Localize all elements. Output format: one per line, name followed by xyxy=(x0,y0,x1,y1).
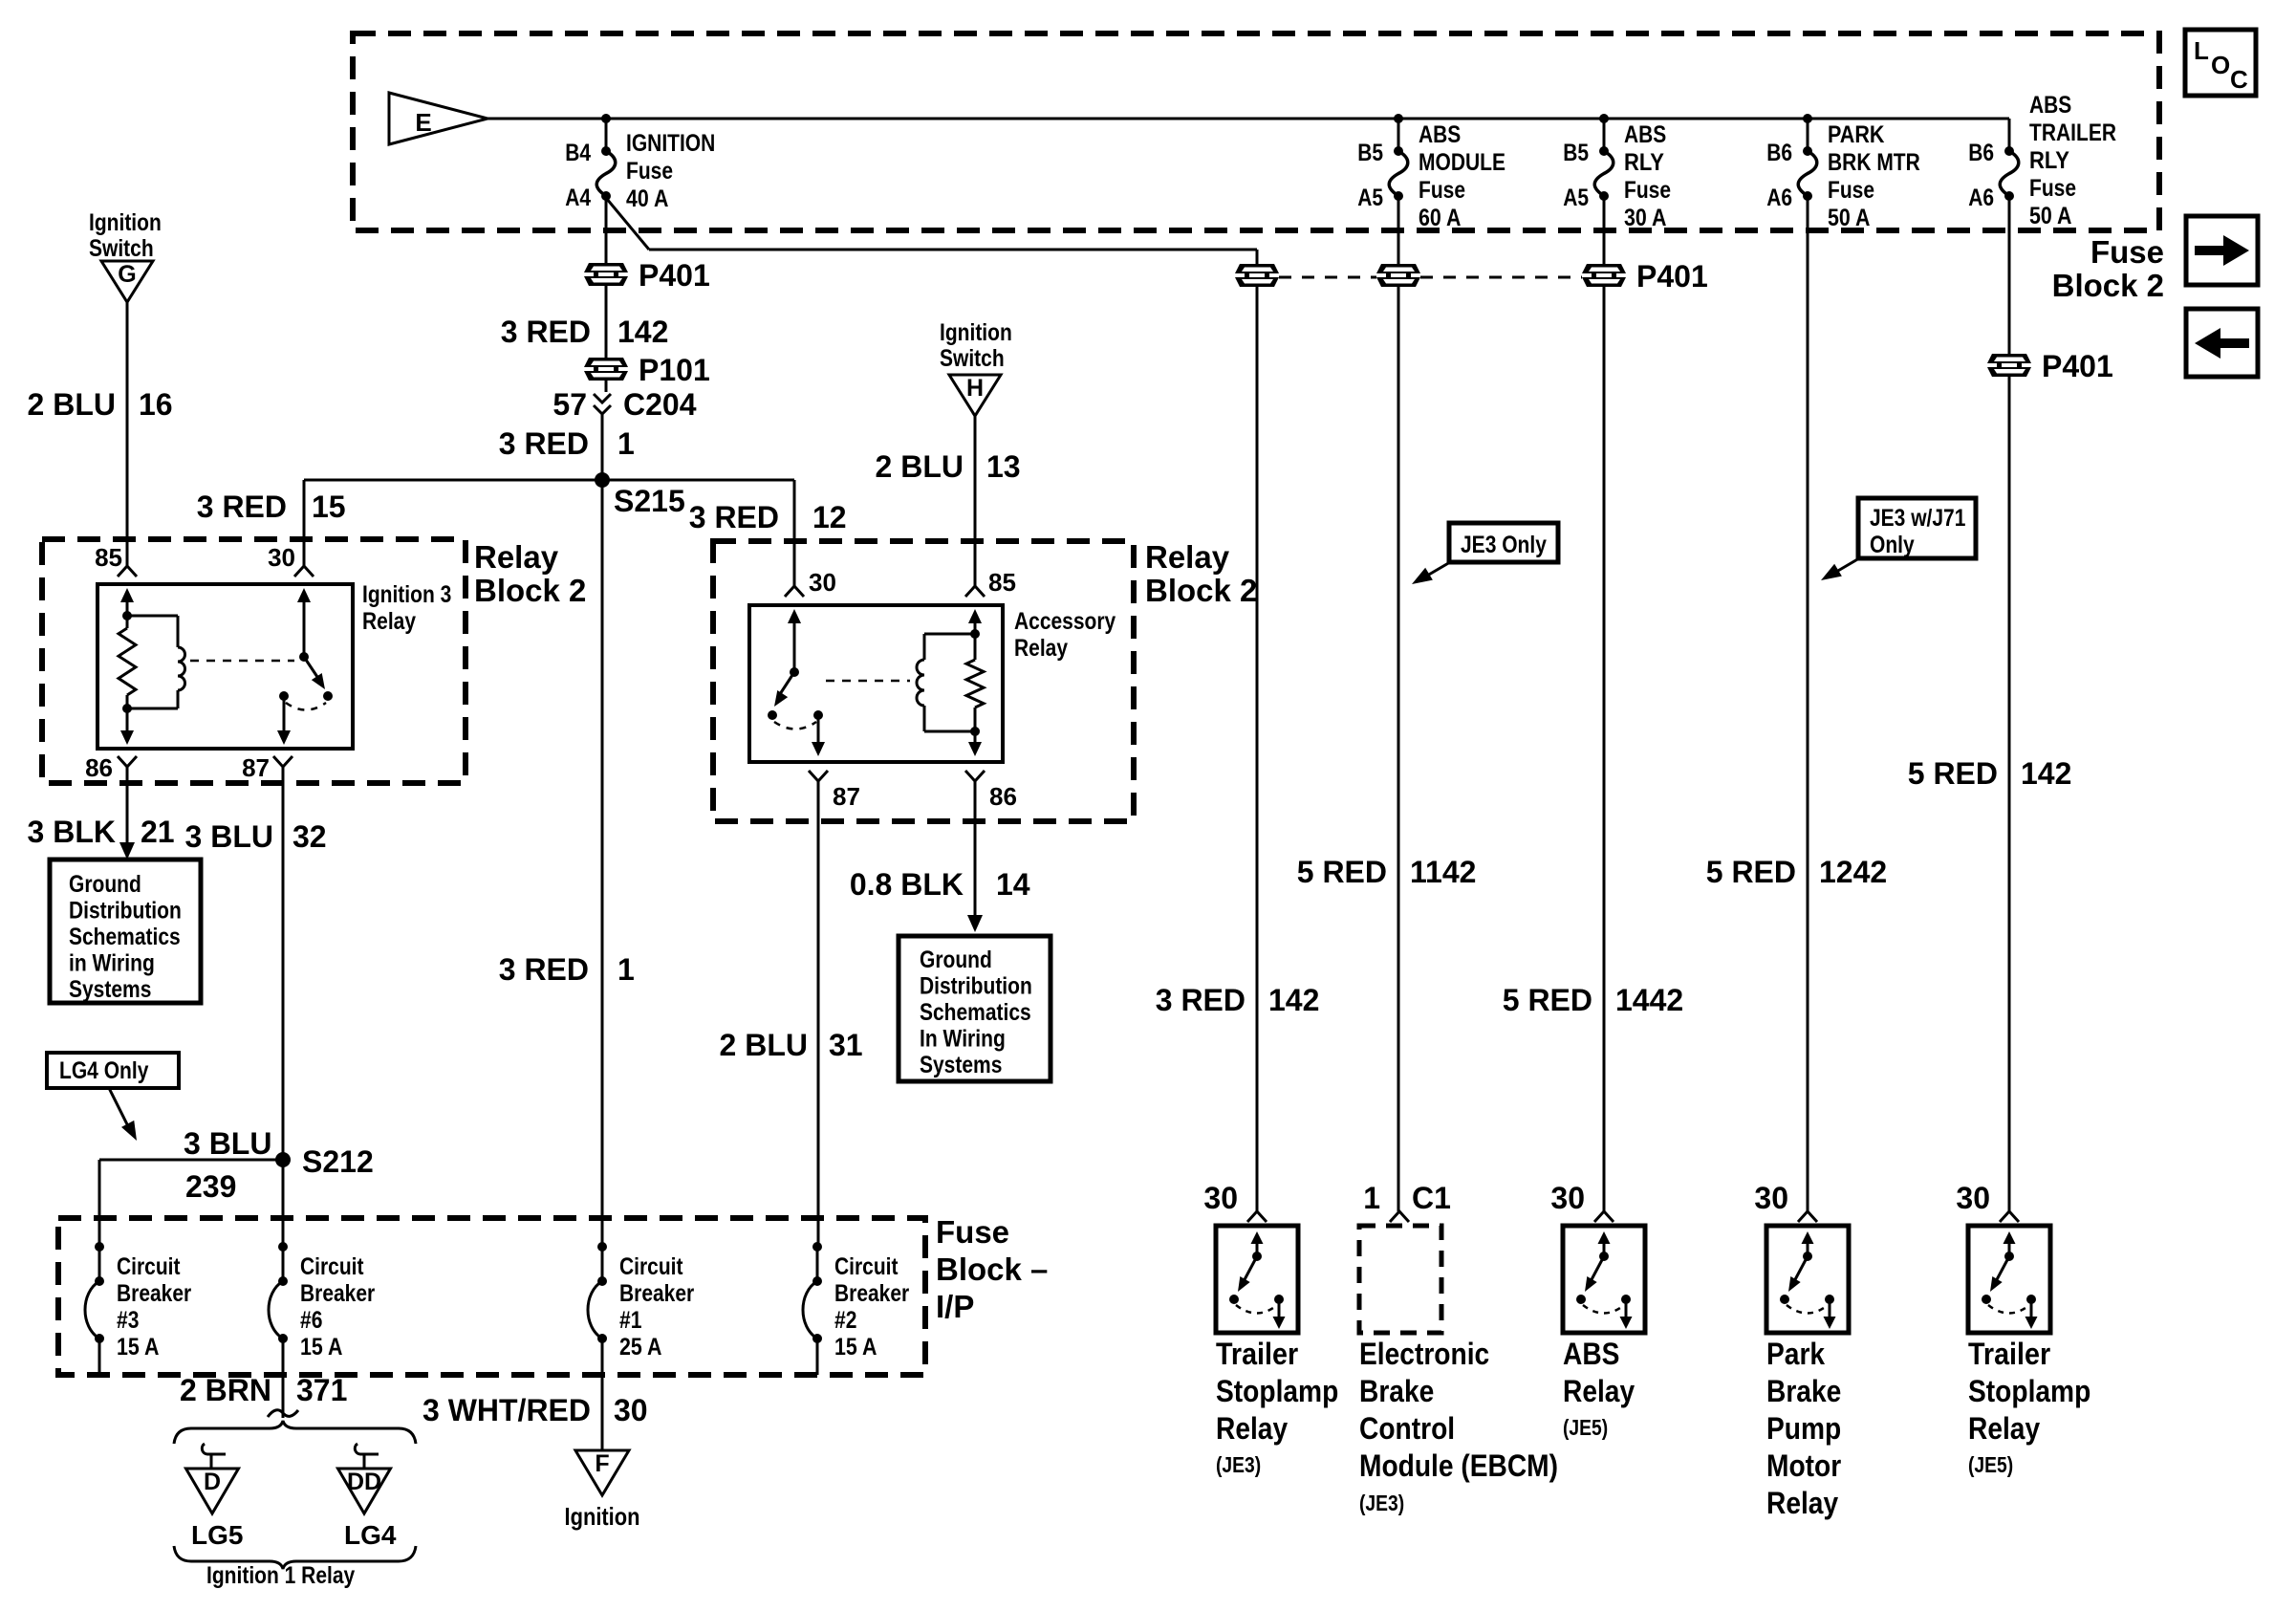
svg-text:Module (EBCM): Module (EBCM) xyxy=(1359,1448,1558,1483)
park brake pump motor relay xyxy=(1754,1181,1849,1333)
svg-text:Block 2: Block 2 xyxy=(1145,573,1257,608)
accessory relay dashed link xyxy=(826,680,910,683)
svg-text:40 A: 40 A xyxy=(626,185,668,212)
svg-text:5 RED: 5 RED xyxy=(1706,855,1796,889)
wire: CB#1 to ignition F xyxy=(601,1375,604,1450)
connector P401 (trailer stoplamp feed) xyxy=(1256,264,1259,1211)
svg-text:in Wiring: in Wiring xyxy=(69,950,155,977)
ignition 3 relay (inner box) xyxy=(97,584,353,749)
relay block 2 (middle, dashed outline) xyxy=(713,541,1134,821)
svg-text:30: 30 xyxy=(1550,1181,1585,1215)
svg-text:1142: 1142 xyxy=(1410,855,1476,889)
relay coil terminal 85 internals xyxy=(119,588,136,745)
wire: horizontal feed to first P401 xyxy=(649,249,1257,251)
svg-text:1442: 1442 xyxy=(1615,983,1683,1017)
trailer stoplamp relay (JE3) xyxy=(1203,1181,1298,1333)
svg-text:C204: C204 xyxy=(623,387,697,422)
JE3 Only callout box xyxy=(1449,523,1558,562)
svg-text:16: 16 xyxy=(139,387,173,422)
svg-text:Relay: Relay xyxy=(1968,1411,2040,1446)
svg-text:57: 57 xyxy=(552,387,587,422)
svg-text:87: 87 xyxy=(242,753,270,782)
connector P401 (ignition feed) xyxy=(584,272,628,277)
wire: bus corner down to ABS TRAILER RLY fuse xyxy=(2008,119,2011,151)
svg-text:60 A: 60 A xyxy=(1419,205,1461,231)
svg-text:2 BLU: 2 BLU xyxy=(28,387,116,422)
svg-text:Schematics: Schematics xyxy=(920,999,1031,1026)
svg-text:14: 14 xyxy=(996,867,1030,902)
fuse block 2 (dashed outline) xyxy=(353,33,2159,230)
svg-text:Distribution: Distribution xyxy=(920,973,1032,1000)
accessory relay (inner box) xyxy=(749,605,1003,762)
svg-text:Fuse: Fuse xyxy=(626,158,673,185)
svg-text:Relay: Relay xyxy=(362,608,416,635)
svg-text:2 BLU: 2 BLU xyxy=(876,449,964,484)
svg-text:30: 30 xyxy=(1203,1181,1238,1215)
JE3 w/J71 Only callout box xyxy=(1858,498,1976,558)
svg-text:Switch: Switch xyxy=(89,235,154,262)
svg-text:3 BLU: 3 BLU xyxy=(184,1126,271,1161)
arrow from JE3 w/J71 Only box xyxy=(1831,558,1859,575)
ABS relay (JE5) xyxy=(1550,1181,1645,1333)
electronic brake control module (EBCM) xyxy=(1359,1181,1451,1333)
svg-text:25 A: 25 A xyxy=(619,1334,661,1361)
svg-text:Motor: Motor xyxy=(1766,1448,1841,1483)
wire: pin 86 to ground schematic xyxy=(126,767,129,843)
circuit breaker #2 xyxy=(803,1242,909,1361)
svg-text:30: 30 xyxy=(268,543,295,572)
svg-text:ABS: ABS xyxy=(1419,121,1461,148)
svg-text:12: 12 xyxy=(812,500,847,534)
svg-text:ABS: ABS xyxy=(1624,121,1666,148)
svg-text:Block 2: Block 2 xyxy=(474,573,586,608)
svg-text:Fuse: Fuse xyxy=(2029,175,2076,202)
svg-text:85: 85 xyxy=(988,568,1016,597)
wire: S215 down to Circuit Breaker #1 xyxy=(601,480,604,1247)
svg-text:P401: P401 xyxy=(1636,259,1708,294)
svg-text:Ground: Ground xyxy=(69,871,141,898)
svg-text:Distribution: Distribution xyxy=(69,898,182,925)
wire: CB#6 to ignition 1 relay xyxy=(282,1375,285,1418)
svg-text:JE3 Only: JE3 Only xyxy=(1461,532,1547,558)
svg-text:15 A: 15 A xyxy=(300,1334,342,1361)
circuit breaker #1 xyxy=(588,1242,694,1361)
svg-text:13: 13 xyxy=(986,449,1021,484)
svg-text:Block –: Block – xyxy=(936,1252,1048,1287)
svg-text:Relay: Relay xyxy=(474,539,559,575)
svg-text:30: 30 xyxy=(1956,1181,1990,1215)
svg-text:O: O xyxy=(2211,51,2230,79)
svg-text:15: 15 xyxy=(312,490,346,524)
wire: ABS RLY fuse to ABS relay xyxy=(1603,196,1606,1211)
svg-text:Systems: Systems xyxy=(69,976,151,1003)
splice S215 xyxy=(595,472,610,488)
brace (bottom) under LG5/LG4 xyxy=(174,1546,416,1569)
brace (top) over LG5/LG4 xyxy=(174,1421,416,1444)
svg-text:B5: B5 xyxy=(1563,140,1589,166)
svg-text:JE3 w/J71: JE3 w/J71 xyxy=(1870,505,1965,532)
svg-text:Breaker: Breaker xyxy=(619,1280,694,1307)
LOC reference box xyxy=(2185,30,2256,96)
fuse IGNITION 40A (B4/A4) xyxy=(565,114,715,212)
svg-text:0.8 BLK: 0.8 BLK xyxy=(850,867,964,902)
svg-text:1: 1 xyxy=(617,426,635,461)
svg-text:B4: B4 xyxy=(565,140,591,166)
svg-text:B6: B6 xyxy=(1766,140,1792,166)
relay switch terminal 30/87 internals xyxy=(277,588,333,745)
svg-text:21: 21 xyxy=(141,815,175,849)
svg-text:LG4: LG4 xyxy=(344,1520,397,1550)
fuse ABS MODULE 60A (B5/A5) xyxy=(1357,114,1505,231)
svg-text:30: 30 xyxy=(1754,1181,1788,1215)
svg-text:Fuse: Fuse xyxy=(1828,177,1874,204)
connector C204 (double chevron) xyxy=(594,394,611,403)
svg-text:F: F xyxy=(595,1450,609,1477)
svg-text:2 BRN: 2 BRN xyxy=(180,1373,271,1407)
svg-text:Switch: Switch xyxy=(940,345,1005,372)
circuit breaker #3 xyxy=(85,1242,191,1361)
svg-text:Ignition: Ignition xyxy=(940,319,1012,346)
svg-text:3 WHT/RED: 3 WHT/RED xyxy=(422,1393,591,1427)
svg-text:Stoplamp: Stoplamp xyxy=(1216,1374,1338,1408)
ground triangle D xyxy=(186,1469,239,1513)
svg-text:Breaker: Breaker xyxy=(834,1280,909,1307)
accessory relay coil xyxy=(917,634,975,731)
fuse ABS RLY 30A (B5/A5) xyxy=(1563,114,1671,231)
svg-text:Trailer: Trailer xyxy=(1216,1337,1298,1371)
svg-text:G: G xyxy=(118,261,136,288)
svg-text:(JE3): (JE3) xyxy=(1216,1452,1261,1477)
LG4 Only callout box xyxy=(47,1053,179,1088)
svg-text:Circuit: Circuit xyxy=(117,1253,181,1280)
svg-text:IGNITION: IGNITION xyxy=(626,130,715,157)
svg-text:Relay: Relay xyxy=(1766,1486,1838,1520)
svg-text:Ignition 3: Ignition 3 xyxy=(362,581,451,608)
svg-text:Circuit: Circuit xyxy=(300,1253,364,1280)
svg-text:31: 31 xyxy=(829,1028,863,1062)
svg-text:A4: A4 xyxy=(565,185,591,211)
svg-text:Accessory: Accessory xyxy=(1014,608,1116,635)
svg-text:Fuse: Fuse xyxy=(1624,177,1671,204)
svg-text:Trailer: Trailer xyxy=(1968,1337,2050,1371)
svg-text:1242: 1242 xyxy=(1819,855,1887,889)
svg-text:Relay: Relay xyxy=(1216,1411,1288,1446)
wire: accessory pin 87 to CB#2 xyxy=(817,781,820,1247)
svg-text:RLY: RLY xyxy=(2029,147,2069,174)
splice-pack symbol above DD xyxy=(355,1444,379,1454)
svg-text:Systems: Systems xyxy=(920,1052,1002,1078)
svg-text:3 RED: 3 RED xyxy=(501,315,591,349)
wire: PARK BRK MTR fuse to park brake relay xyxy=(1807,196,1809,1211)
dashed harness link between P401 connectors xyxy=(1279,276,1376,279)
svg-text:1: 1 xyxy=(617,952,635,987)
connector P101 xyxy=(584,367,628,372)
svg-text:#6: #6 xyxy=(300,1307,322,1334)
svg-text:P401: P401 xyxy=(2042,349,2113,383)
power triangle F xyxy=(575,1450,629,1495)
svg-text:5 RED: 5 RED xyxy=(1908,756,1998,791)
svg-text:(JE5): (JE5) xyxy=(1968,1452,2013,1477)
svg-text:P101: P101 xyxy=(639,353,710,387)
svg-text:3 RED: 3 RED xyxy=(499,952,589,987)
svg-text:142: 142 xyxy=(617,315,668,349)
relay coil (ignition 3 relay) xyxy=(127,616,185,708)
svg-text:Relay: Relay xyxy=(1145,539,1230,575)
splice S212 xyxy=(275,1152,291,1167)
svg-text:H: H xyxy=(966,375,984,402)
svg-text:32: 32 xyxy=(292,819,327,854)
fuse PARK BRK MTR 50A (B6/A6) xyxy=(1766,114,1920,231)
arrow from JE3 Only box xyxy=(1422,562,1450,578)
svg-text:B5: B5 xyxy=(1357,140,1383,166)
ground distribution reference box (left) xyxy=(50,860,201,1003)
back arrow box xyxy=(2186,309,2258,377)
svg-text:3 RED: 3 RED xyxy=(1156,983,1245,1017)
svg-text:142: 142 xyxy=(2021,756,2071,791)
svg-text:In Wiring: In Wiring xyxy=(920,1026,1006,1053)
svg-text:Fuse: Fuse xyxy=(1419,177,1465,204)
accessory relay switch terminal internals xyxy=(768,609,825,756)
svg-text:1: 1 xyxy=(1363,1181,1380,1215)
svg-text:86: 86 xyxy=(85,753,113,782)
svg-text:Relay: Relay xyxy=(1563,1374,1635,1408)
svg-text:3 RED: 3 RED xyxy=(499,426,589,461)
wire: main bus from E to right xyxy=(487,118,2009,120)
svg-text:50 A: 50 A xyxy=(2029,203,2071,229)
svg-text:Relay: Relay xyxy=(1014,635,1068,662)
svg-text:30: 30 xyxy=(614,1393,648,1427)
wire: 3 RED 12 branch from S215 to pin 30 xyxy=(602,479,794,482)
connector P401 (EBCM feed) xyxy=(1376,273,1420,278)
svg-text:B6: B6 xyxy=(1968,140,1994,166)
svg-text:D: D xyxy=(204,1469,221,1495)
svg-text:(JE3): (JE3) xyxy=(1359,1491,1404,1515)
svg-text:I/P: I/P xyxy=(936,1289,974,1324)
svg-text:S215: S215 xyxy=(614,484,685,518)
relay block 2 (left, dashed outline) xyxy=(42,539,466,783)
svg-text:85: 85 xyxy=(95,543,122,572)
svg-text:30: 30 xyxy=(809,568,836,597)
wire: A4 diagonal feed to trailer stoplamp branch xyxy=(606,198,649,250)
svg-text:2 BLU: 2 BLU xyxy=(720,1028,808,1062)
wire label 3 RED 1 xyxy=(601,414,604,480)
svg-text:A6: A6 xyxy=(1968,185,1994,211)
wire: S212 to circuit breaker #6 xyxy=(282,1160,285,1247)
svg-text:87: 87 xyxy=(833,782,860,811)
svg-text:#1: #1 xyxy=(619,1307,641,1334)
svg-text:C: C xyxy=(2230,65,2248,94)
svg-text:Stoplamp: Stoplamp xyxy=(1968,1374,2090,1408)
svg-text:BRK MTR: BRK MTR xyxy=(1828,149,1920,176)
connector P401 (ABS relay feed) xyxy=(1582,273,1626,278)
circuit breaker #6 xyxy=(269,1242,375,1361)
svg-text:S212: S212 xyxy=(302,1144,374,1179)
svg-text:30 A: 30 A xyxy=(1624,205,1666,231)
wire: pin 87 down to S212 xyxy=(282,767,285,1160)
ground distribution reference box (middle) xyxy=(899,936,1051,1081)
svg-text:Control: Control xyxy=(1359,1411,1455,1446)
ground triangle DD xyxy=(338,1469,391,1513)
svg-text:L: L xyxy=(2194,36,2209,65)
svg-text:Brake: Brake xyxy=(1766,1374,1841,1408)
svg-text:Brake: Brake xyxy=(1359,1374,1434,1408)
wire: ABS MODULE fuse to EBCM xyxy=(1397,196,1400,1211)
svg-text:50 A: 50 A xyxy=(1828,205,1870,231)
wire: A4 down to P401 xyxy=(605,196,608,263)
wire: ABS TRAILER RLY fuse to trailer stoplamp relay xyxy=(2008,196,2011,1211)
svg-text:Pump: Pump xyxy=(1766,1411,1841,1446)
accessory relay coil terminal internals xyxy=(966,609,984,756)
connector triangle H xyxy=(949,375,1001,416)
svg-text:Only: Only xyxy=(1870,532,1915,558)
svg-text:Ground: Ground xyxy=(920,947,992,973)
svg-text:LG4 Only: LG4 Only xyxy=(59,1057,148,1084)
svg-text:E: E xyxy=(415,108,431,137)
fuse ABS TRAILER RLY 50A (B6/A6) xyxy=(1968,92,2116,229)
svg-text:Park: Park xyxy=(1766,1337,1825,1371)
wire: P101 to C204 xyxy=(605,381,608,392)
svg-text:Schematics: Schematics xyxy=(69,924,181,950)
svg-text:142: 142 xyxy=(1268,983,1319,1017)
connector triangle G xyxy=(101,261,153,302)
svg-text:#2: #2 xyxy=(834,1307,856,1334)
arrow from LG4 Only box xyxy=(109,1088,130,1130)
svg-text:371: 371 xyxy=(296,1373,347,1407)
svg-text:LG5: LG5 xyxy=(191,1520,243,1550)
power feed triangle E xyxy=(389,93,487,144)
svg-text:Fuse: Fuse xyxy=(936,1214,1009,1250)
svg-text:Breaker: Breaker xyxy=(117,1280,191,1307)
svg-text:3 BLK: 3 BLK xyxy=(28,815,116,849)
svg-text:TRAILER: TRAILER xyxy=(2029,120,2116,146)
svg-text:3 RED: 3 RED xyxy=(197,490,287,524)
svg-text:ABS: ABS xyxy=(1563,1337,1619,1371)
svg-text:A6: A6 xyxy=(1766,185,1792,211)
svg-text:RLY: RLY xyxy=(1624,149,1664,176)
svg-text:ABS: ABS xyxy=(2029,92,2071,119)
forward arrow box xyxy=(2186,216,2258,285)
svg-text:Ignition: Ignition xyxy=(565,1502,640,1531)
splice tilde xyxy=(268,1410,298,1417)
svg-text:PARK: PARK xyxy=(1828,121,1885,148)
svg-text:15 A: 15 A xyxy=(834,1334,877,1361)
svg-text:C1: C1 xyxy=(1412,1181,1451,1215)
svg-text:MODULE: MODULE xyxy=(1419,149,1505,176)
svg-text:Fuse: Fuse xyxy=(2090,234,2164,270)
svg-text:P401: P401 xyxy=(639,258,710,293)
svg-text:239: 239 xyxy=(185,1169,236,1204)
svg-text:A5: A5 xyxy=(1357,185,1383,211)
svg-text:86: 86 xyxy=(989,782,1017,811)
wire: 3 RED 15 branch from S215 to pin 30 xyxy=(303,480,306,566)
relay actuation dashed link xyxy=(190,660,294,663)
wire: H down to accessory relay pin 85 xyxy=(974,416,977,586)
svg-text:A5: A5 xyxy=(1563,185,1589,211)
trailer stoplamp relay (JE5) xyxy=(1956,1181,2050,1333)
svg-text:#3: #3 xyxy=(117,1307,139,1334)
svg-text:Ignition: Ignition xyxy=(89,209,162,236)
svg-text:DD: DD xyxy=(347,1469,381,1495)
wire: G down to relay block xyxy=(126,302,129,566)
svg-text:5 RED: 5 RED xyxy=(1503,983,1592,1017)
svg-text:Circuit: Circuit xyxy=(834,1253,899,1280)
wire: accessory pin 86 to ground schematic xyxy=(974,781,977,918)
connector P401 (trailer JE5 feed) xyxy=(1987,363,2031,368)
svg-text:Electronic: Electronic xyxy=(1359,1337,1489,1371)
fuse block I/P (dashed outline) xyxy=(58,1218,925,1375)
svg-text:Ignition 1 Relay: Ignition 1 Relay xyxy=(206,1562,355,1589)
wire: LG4 branch to S212 xyxy=(99,1159,283,1162)
splice-pack symbol above D xyxy=(202,1444,226,1454)
svg-text:3 BLU: 3 BLU xyxy=(185,819,273,854)
svg-text:(JE5): (JE5) xyxy=(1563,1415,1608,1440)
svg-text:Block 2: Block 2 xyxy=(2052,268,2164,303)
svg-text:3 RED: 3 RED xyxy=(689,500,779,534)
svg-text:15 A: 15 A xyxy=(117,1334,159,1361)
svg-text:Breaker: Breaker xyxy=(300,1280,375,1307)
svg-text:5 RED: 5 RED xyxy=(1297,855,1387,889)
svg-text:Circuit: Circuit xyxy=(619,1253,683,1280)
